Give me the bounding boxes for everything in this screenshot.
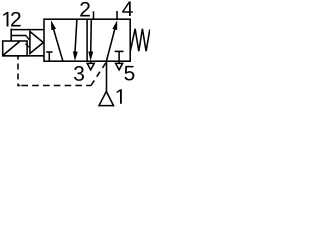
bend to pilot triangle [26, 35, 30, 40]
pilot line corner dash [17, 85, 20, 87]
exhaust triangle port 3 [87, 63, 94, 70]
background [0, 0, 150, 107]
arrowhead flow 2 to 3 [88, 51, 93, 61]
pilot line dashed diagonal [91, 62, 106, 86]
actuator bottom rail [3, 55, 44, 57]
label 12 digit 1 [3, 12, 8, 26]
exhaust stub port 5 [118, 61, 120, 63]
kink lower [25, 44, 29, 48]
pilot line dashed vertical [17, 56, 19, 86]
label 3 [74, 66, 84, 81]
actuator top rail [11, 29, 44, 31]
label 4 [122, 2, 133, 16]
compressed air source triangle [99, 91, 114, 105]
flow path 1 to 4 (right square diagonal) [106, 28, 115, 62]
arrowhead flow 4 to 5 [73, 51, 78, 61]
pilot port 12 line [10, 29, 12, 41]
label 5 [124, 66, 134, 81]
label 1 [117, 89, 122, 103]
divider between positions [86, 19, 88, 61]
arrowhead flow 1 to 2 [51, 20, 56, 30]
solenoid diagonal [3, 41, 20, 55]
port 4 stub [116, 11, 118, 19]
return spring [130, 29, 150, 52]
exhaust triangle port 5 [116, 63, 123, 70]
arrowhead flow 1 to 4 [112, 20, 117, 30]
valve body 5/2 [44, 19, 130, 61]
flow path 1 to 2 (left square diagonal) [52, 24, 63, 62]
label 12 digit 2 [11, 12, 21, 27]
solenoid box [3, 41, 27, 56]
flow path 4 to 5 (left square arrow) [75, 19, 77, 52]
pilot amplifier triangle [30, 32, 43, 54]
exhaust stub port 3 [90, 61, 92, 63]
actuator mid rail with bend to pilot triangle [11, 35, 26, 37]
blocked port 5 (right square T) [115, 50, 124, 52]
flow path 2 to 3 (right square arrow) [90, 19, 93, 52]
port 2 stub [93, 11, 95, 19]
label 2 [80, 2, 90, 17]
pilot line dashed horizontal [18, 85, 91, 87]
blocked port 3 (left square T) [46, 51, 52, 53]
port 1 supply line [106, 61, 108, 91]
